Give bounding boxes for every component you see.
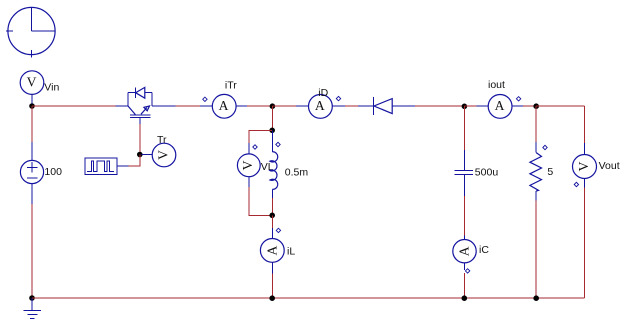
- ground: [24, 298, 41, 318]
- capacitor C1: [455, 150, 474, 196]
- svg-text:V: V: [156, 150, 171, 160]
- polarity marker iD: [336, 96, 340, 100]
- node gate junction: [137, 152, 143, 158]
- wire (left rail, source down to ground node): [31, 204, 33, 298]
- polarity marker L1: [276, 142, 280, 146]
- clock (simulation control icon): [6, 7, 55, 57]
- svg-text:iL: iL: [287, 245, 295, 257]
- node L-top junction: [269, 128, 275, 134]
- svg-text:V: V: [27, 74, 37, 89]
- svg-text:Vin: Vin: [44, 81, 59, 93]
- svg-text:100: 100: [44, 166, 62, 178]
- svg-text:A: A: [264, 246, 279, 256]
- wire (iout to node D): [523, 105, 536, 107]
- wire (VL loop top): [249, 130, 272, 143]
- wire (inductor to L-bottom node): [271, 198, 273, 215]
- polarity marker VL: [253, 145, 257, 149]
- wire (node B down to inductor-loop node): [271, 106, 273, 130]
- wire (node D to Vout corner): [536, 105, 584, 107]
- wire (diode to cap node): [415, 105, 464, 107]
- wire (resistor to bottom rail): [535, 201, 537, 299]
- polarity marker Vout: [574, 182, 578, 186]
- node D junction (resistor top): [533, 103, 539, 109]
- svg-text:A: A: [315, 98, 325, 113]
- svg-text:5: 5: [547, 166, 553, 178]
- wire (iL to bottom rail): [271, 274, 273, 298]
- ammeter probe iC: [453, 236, 476, 271]
- inductor L1 0.5m: [270, 130, 278, 198]
- svg-text:A: A: [457, 246, 472, 256]
- voltmeter probe Vout: [573, 143, 597, 187]
- wire (pulse block to gate node): [129, 155, 140, 167]
- polarity marker iL: [276, 228, 280, 232]
- svg-text:A: A: [219, 98, 229, 113]
- voltmeter probe VL: [237, 143, 260, 187]
- node C junction (capacitor top): [462, 104, 468, 110]
- wire (Vout branch from top rail): [584, 106, 586, 143]
- wire (bottom rail): [32, 297, 585, 299]
- wire (cap node to iout): [464, 105, 476, 107]
- wire (L-bottom node to iL): [271, 215, 273, 228]
- svg-text:500u: 500u: [475, 167, 499, 179]
- svg-text:Vout: Vout: [599, 160, 620, 172]
- wire (gate lead down to gate node): [139, 124, 141, 155]
- wire (left rail, junction down to source): [31, 106, 33, 142]
- ammeter probe iL: [260, 228, 284, 273]
- node A (Vin junction): [29, 103, 35, 109]
- node bottom iL junction: [269, 295, 275, 301]
- ammeter iD: [296, 95, 345, 119]
- node bottom R junction: [533, 295, 539, 301]
- diode D1: [358, 97, 415, 115]
- svg-text:iC: iC: [479, 244, 489, 256]
- wire (VL loop bottom): [249, 187, 272, 215]
- wire (node B to iD): [272, 105, 296, 107]
- wire (iTr to node B): [247, 105, 273, 107]
- ammeter iout: [476, 95, 522, 119]
- node B junction: [270, 103, 276, 109]
- wire (node D down to resistor): [535, 106, 537, 142]
- svg-text:Tr: Tr: [157, 134, 167, 146]
- polarity marker iC: [465, 269, 469, 273]
- wire (top rail: Vin node to switch): [32, 105, 116, 107]
- transistor Q1 (MOSFET with body diode): [116, 87, 176, 124]
- svg-text:iout: iout: [488, 79, 505, 91]
- svg-text:iD: iD: [318, 87, 328, 99]
- wire (cap node down to capacitor): [463, 106, 465, 150]
- svg-text:A: A: [495, 98, 505, 113]
- polarity marker R1: [543, 145, 547, 149]
- polarity marker iout: [516, 97, 520, 101]
- svg-text:V: V: [240, 160, 255, 170]
- voltmeter Vin: [20, 71, 44, 106]
- resistor R1 (5 ohm): [530, 142, 542, 200]
- gating pulse source block: [85, 158, 128, 174]
- wire (switch to ammeter iTr): [176, 105, 200, 107]
- node GND junction: [29, 295, 35, 301]
- wire (capacitor to iC): [463, 196, 465, 236]
- svg-text:0.5m: 0.5m: [285, 166, 309, 178]
- voltage probe Tr: [142, 143, 176, 167]
- svg-text:V: V: [576, 161, 591, 171]
- node bottom iC junction: [462, 295, 468, 301]
- svg-text:iTr: iTr: [225, 80, 237, 92]
- wire (iC to bottom rail): [463, 273, 465, 298]
- wire (iD to diode): [345, 105, 358, 107]
- polarity marker iTr: [203, 97, 207, 101]
- ammeter iTr: [200, 94, 247, 118]
- wire (Vout to bottom rail corner): [584, 187, 586, 298]
- DC source V1: [20, 142, 43, 204]
- node L-bottom junction: [269, 213, 275, 219]
